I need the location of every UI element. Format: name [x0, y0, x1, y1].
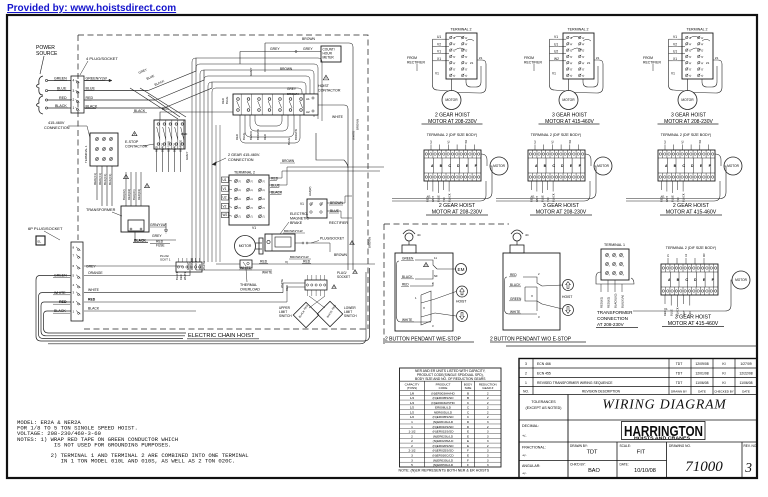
- svg-text:MOTOR AT 208-230V: MOTOR AT 208-230V: [536, 210, 587, 216]
- svg-text:F: F: [467, 458, 469, 462]
- svg-text:2): 2): [570, 68, 573, 70]
- svg-text:Z1: Z1: [587, 61, 591, 65]
- svg-text:MOTOR: MOTOR: [562, 98, 575, 102]
- svg-text:MAGNETIC: MAGNETIC: [290, 217, 309, 221]
- svg-text:TERMINAL 2: TERMINAL 2: [567, 28, 588, 32]
- svg-text:WHITE: WHITE: [88, 288, 100, 292]
- svg-text:DRAWING NO.: DRAWING NO.: [669, 444, 691, 448]
- svg-text:BLACK: BLACK: [551, 193, 555, 202]
- svg-text:RECTIFIER: RECTIFIER: [329, 221, 348, 225]
- svg-text:BLACK: BLACK: [447, 193, 451, 202]
- svg-text:1: 1: [411, 425, 413, 429]
- svg-text:11: 11: [434, 256, 437, 260]
- svg-text:3: 3: [487, 430, 489, 434]
- svg-text:KI: KI: [722, 362, 725, 366]
- svg-text:E: E: [467, 430, 469, 434]
- svg-text:1/27/09: 1/27/09: [740, 362, 751, 366]
- svg-text:3 GEAR HOIST: 3 GEAR HOIST: [552, 113, 587, 119]
- svg-text:WHITE: WHITE: [352, 131, 356, 140]
- svg-text:BLACK: BLACK: [55, 104, 67, 108]
- svg-text:BLK(X2): BLK(X2): [122, 189, 126, 200]
- svg-text:(N)ER010L/LD: (N)ER010L/LD: [433, 420, 454, 424]
- svg-text:2): 2): [689, 68, 692, 70]
- svg-text:BROWN: BROWN: [282, 159, 295, 163]
- svg-text:DECIMAL:: DECIMAL:: [522, 424, 539, 428]
- svg-text:GREY: GREY: [185, 151, 189, 160]
- svg-text:HAZ(W): HAZ(W): [308, 187, 312, 196]
- svg-text:WHITE: WHITE: [54, 291, 66, 295]
- svg-text:TERMINAL 2 (DIF SIZE BODY): TERMINAL 2 (DIF SIZE BODY): [666, 246, 716, 250]
- svg-text:V1: V1: [252, 226, 256, 230]
- svg-text:2): 2): [465, 74, 468, 76]
- svg-text:3: 3: [525, 362, 527, 366]
- svg-text:3 GEAR HOIST: 3 GEAR HOIST: [675, 315, 712, 321]
- svg-text:2): 2): [582, 62, 585, 64]
- svg-text:(N)ER050L/LD: (N)ER050L/LD: [433, 463, 454, 467]
- svg-text:F: F: [467, 449, 469, 453]
- svg-text:KI: KI: [722, 381, 725, 385]
- svg-text:2): 2): [465, 49, 468, 51]
- svg-text:GREY: GREY: [303, 47, 313, 51]
- svg-text:GREEN: GREEN: [402, 257, 414, 261]
- svg-text:2): 2): [701, 56, 704, 58]
- svg-text:CONNECTION: CONNECTION: [597, 316, 628, 321]
- svg-text:X1: X1: [437, 57, 441, 61]
- svg-text:2): 2): [453, 43, 456, 45]
- svg-text:(N)ER030L/LD: (N)ER030L/LD: [433, 458, 454, 462]
- svg-text:2): 2): [251, 198, 254, 200]
- svg-text:3: 3: [73, 89, 75, 93]
- svg-text:SWITCH: SWITCH: [279, 314, 292, 318]
- svg-text:3: 3: [487, 453, 489, 457]
- svg-text:RED: RED: [402, 283, 409, 287]
- svg-text:2): 2): [582, 43, 585, 45]
- svg-text:RED(X1): RED(X1): [98, 173, 102, 185]
- svg-text:2: 2: [487, 396, 489, 400]
- svg-text:4 PLUG/SOCKET: 4 PLUG/SOCKET: [86, 56, 118, 61]
- svg-text:TERMINAL 1: TERMINAL 1: [84, 145, 88, 163]
- svg-text:V1: V1: [661, 195, 665, 199]
- svg-text:X1: X1: [673, 57, 677, 61]
- svg-text:Z1: Z1: [715, 56, 719, 60]
- svg-text:2): 2): [453, 56, 456, 58]
- svg-text:OVERLOAD: OVERLOAD: [240, 288, 260, 292]
- svg-text:ORANGE: ORANGE: [88, 271, 103, 275]
- svg-text:GREY: GREY: [249, 67, 253, 76]
- svg-text:NER005L/LD: NER005L/LD: [434, 410, 453, 414]
- svg-text:BLUE: BLUE: [271, 184, 281, 188]
- svg-text:5: 5: [411, 463, 413, 467]
- svg-text:(N)ER005S/SD: (N)ER005S/SD: [433, 415, 455, 419]
- svg-text:V1: V1: [552, 72, 556, 76]
- svg-text:2): 2): [582, 68, 585, 70]
- svg-text:WHITE: WHITE: [202, 261, 206, 270]
- svg-text:GREY: GREY: [152, 234, 162, 238]
- svg-text:2): 2): [251, 180, 254, 182]
- svg-text:GREY: GREY: [86, 265, 96, 269]
- svg-text:FUSE: FUSE: [156, 244, 165, 248]
- svg-text:SCALE:: SCALE:: [620, 444, 631, 448]
- svg-text:2: 2: [411, 439, 413, 443]
- svg-text:TDT: TDT: [676, 381, 683, 385]
- svg-text:BROWN: BROWN: [287, 92, 299, 96]
- svg-text:RED(X1): RED(X1): [93, 173, 97, 185]
- svg-text:2): 2): [689, 43, 692, 45]
- svg-text:GEAR #: GEAR #: [482, 386, 493, 390]
- svg-text:BLACK: BLACK: [88, 307, 100, 311]
- svg-text:2: 2: [73, 98, 75, 102]
- svg-text:SIZE: SIZE: [465, 386, 472, 390]
- svg-text:2): 2): [701, 62, 704, 64]
- svg-text:2 GEAR 415-460V.: 2 GEAR 415-460V.: [228, 153, 260, 157]
- svg-text:BLK(X1): BLK(X1): [108, 174, 112, 185]
- svg-text:10/10/08: 10/10/08: [634, 468, 656, 474]
- svg-text:THERMAL: THERMAL: [240, 283, 257, 287]
- svg-text:2): 2): [453, 62, 456, 64]
- svg-text:(N)ER015S/SD: (N)ER015S/SD: [433, 430, 455, 434]
- svg-text:MOTOR AT 415-460V: MOTOR AT 415-460V: [668, 321, 719, 327]
- svg-text:REV. NO.: REV. NO.: [744, 444, 758, 448]
- svg-text:FROM: FROM: [407, 56, 417, 60]
- svg-text:TERMINAL 2: TERMINAL 2: [450, 28, 471, 32]
- svg-text:BLACK: BLACK: [681, 193, 685, 202]
- svg-text:DATE: DATE: [742, 389, 750, 393]
- svg-text:2 GEAR HOIST: 2 GEAR HOIST: [439, 203, 476, 209]
- svg-text:BLACK: BLACK: [175, 271, 179, 280]
- svg-text:2): 2): [689, 74, 692, 76]
- svg-text:RED: RED: [86, 96, 94, 100]
- svg-text:2): 2): [453, 74, 456, 76]
- svg-text:ELECTRO-: ELECTRO-: [290, 212, 309, 216]
- svg-text:BROWN: BROWN: [302, 37, 316, 41]
- svg-text:2): 2): [239, 189, 242, 191]
- svg-text:3 GEAR HOIST: 3 GEAR HOIST: [671, 113, 706, 119]
- svg-text:2): 2): [239, 198, 242, 200]
- svg-text:3 GEAR HOIST: 3 GEAR HOIST: [543, 203, 580, 209]
- svg-text:TDT: TDT: [587, 450, 598, 456]
- svg-text:TERMINAL 2: TERMINAL 2: [686, 28, 707, 32]
- svg-text:2): 2): [239, 215, 242, 217]
- svg-text:1: 1: [525, 381, 527, 385]
- svg-text:BLACK: BLACK: [134, 109, 146, 113]
- svg-text:GREEN: GREEN: [54, 274, 67, 278]
- svg-text:REVISION DESCRIPTION: REVISION DESCRIPTION: [582, 389, 621, 393]
- svg-text:RED: RED: [510, 273, 517, 277]
- svg-text:2 BUTTON PENDANT W/E-STOP: 2 BUTTON PENDANT W/E-STOP: [385, 337, 462, 343]
- svg-text:2): 2): [689, 56, 692, 58]
- svg-text:2: 2: [411, 434, 413, 438]
- svg-text:ELECTRIC CHAIN HOIST: ELECTRIC CHAIN HOIST: [188, 333, 255, 339]
- svg-text:3: 3: [411, 453, 413, 457]
- svg-text:2): 2): [263, 180, 266, 182]
- svg-text:GREY: GREY: [287, 87, 297, 91]
- svg-text:RECTIFIER: RECTIFIER: [643, 61, 661, 65]
- svg-text:E: E: [467, 439, 469, 443]
- svg-text:2: 2: [487, 415, 489, 419]
- svg-text:A2: A2: [306, 110, 310, 114]
- svg-text:BROWN: BROWN: [368, 237, 372, 248]
- svg-text:2): 2): [465, 56, 468, 58]
- svg-text:HOIST: HOIST: [318, 84, 330, 88]
- svg-text:KI: KI: [722, 371, 725, 375]
- svg-text:X: X: [531, 294, 533, 298]
- svg-text:12/22/08: 12/22/08: [739, 371, 752, 375]
- svg-text:BROWN: BROWN: [280, 67, 293, 71]
- svg-text:3: 3: [487, 458, 489, 462]
- svg-text:BAO: BAO: [588, 468, 600, 474]
- svg-text:BLUE: BLUE: [242, 133, 246, 140]
- svg-text:2): 2): [701, 37, 704, 39]
- svg-text:NO.: NO.: [523, 389, 529, 393]
- svg-text:CODE: CODE: [439, 386, 448, 390]
- svg-text:FROM: FROM: [524, 56, 534, 60]
- svg-text:BLACK: BLACK: [510, 283, 521, 287]
- svg-text:BLUE: BLUE: [86, 87, 96, 91]
- svg-text:1: 1: [73, 106, 75, 110]
- svg-text:TERMINAL 2 (DIF SIZE BODY): TERMINAL 2 (DIF SIZE BODY): [531, 133, 581, 137]
- svg-text:MOTOR: MOTOR: [681, 98, 694, 102]
- svg-text:2): 2): [689, 62, 692, 64]
- svg-text:2): 2): [251, 215, 254, 217]
- svg-text:V2: V2: [673, 42, 677, 46]
- svg-text:DATE:: DATE:: [620, 463, 629, 467]
- svg-text:AT 208-230V: AT 208-230V: [597, 322, 625, 327]
- svg-text:DRAWN BY:: DRAWN BY:: [570, 444, 588, 448]
- svg-text:RED: RED: [263, 134, 267, 140]
- svg-text:ECN 455: ECN 455: [537, 371, 551, 375]
- svg-text:V1: V1: [671, 72, 675, 76]
- svg-text:E: E: [467, 444, 469, 448]
- svg-text:U1: U1: [437, 35, 441, 39]
- svg-text:B: B: [467, 396, 469, 400]
- svg-text:BODY SIZE AND NO. OF REDUCTION: BODY SIZE AND NO. OF REDUCTION GEARS: [415, 377, 486, 381]
- svg-text:BROWN: BROWN: [334, 253, 348, 257]
- svg-text:2): 2): [570, 43, 573, 45]
- svg-text:Z1: Z1: [479, 56, 483, 60]
- svg-text:RED: RED: [88, 298, 96, 302]
- svg-text:11/06/08: 11/06/08: [740, 381, 753, 385]
- svg-text:BLACK: BLACK: [54, 309, 66, 313]
- svg-text:V2: V2: [223, 204, 227, 208]
- svg-text:2): 2): [263, 207, 266, 209]
- svg-text:1/8: 1/8: [410, 391, 415, 395]
- svg-text:(TONS): (TONS): [407, 386, 417, 390]
- svg-text:HOISTS AND CRANES: HOISTS AND CRANES: [634, 435, 690, 440]
- svg-text:BRAKE: BRAKE: [290, 221, 303, 225]
- svg-text:Provided by: www.hoistsdirect.: Provided by: www.hoistsdirect.com: [7, 3, 176, 14]
- svg-text:TRANSFORMER: TRANSFORMER: [86, 208, 116, 212]
- svg-text:HOIST: HOIST: [562, 295, 572, 299]
- svg-text:1: 1: [411, 420, 413, 424]
- svg-text:BROWN: BROWN: [356, 119, 360, 130]
- svg-text:ECN 466: ECN 466: [537, 362, 551, 366]
- svg-text:12/01/08: 12/01/08: [695, 371, 708, 375]
- svg-text:CONTACTOR: CONTACTOR: [125, 145, 148, 149]
- svg-text:(N)ER020S/LD: (N)ER020S/LD: [433, 439, 454, 443]
- svg-text:RED(X1): RED(X1): [600, 297, 604, 308]
- svg-text:RECTIFIER: RECTIFIER: [407, 61, 425, 65]
- svg-text:FRACTIONAL:: FRACTIONAL:: [522, 446, 546, 450]
- svg-text:GREEN: GREEN: [54, 77, 67, 81]
- svg-text:TERMINAL 2 (DIF SIZE BODY): TERMINAL 2 (DIF SIZE BODY): [427, 133, 477, 137]
- svg-text:V1: V1: [673, 35, 677, 39]
- svg-text:RECTIFIER: RECTIFIER: [524, 61, 542, 65]
- svg-text:FROM: FROM: [643, 56, 653, 60]
- svg-text:V1: V1: [437, 50, 441, 54]
- svg-text:3: 3: [744, 460, 752, 475]
- svg-text:ER008L/LD: ER008L/LD: [435, 406, 452, 410]
- svg-text:TOLERANCES: TOLERANCES: [531, 400, 556, 404]
- svg-text:MOTOR: MOTOR: [239, 244, 252, 248]
- svg-text:RED(X2): RED(X2): [127, 189, 131, 200]
- svg-text:415-460V: 415-460V: [48, 121, 65, 125]
- svg-text:3: 3: [487, 434, 489, 438]
- svg-text:2: 2: [487, 401, 489, 405]
- svg-text:1/4: 1/4: [410, 396, 415, 400]
- svg-text:3: 3: [411, 458, 413, 462]
- svg-text:2): 2): [239, 207, 242, 209]
- svg-text:SOURCE: SOURCE: [36, 51, 58, 57]
- svg-text:V1: V1: [664, 307, 668, 311]
- svg-text:METER: METER: [323, 56, 335, 60]
- svg-text:U2: U2: [223, 196, 227, 200]
- svg-text:3: 3: [487, 420, 489, 424]
- svg-text:GRN/YLW: GRN/YLW: [150, 223, 166, 227]
- svg-text:RED: RED: [271, 177, 279, 181]
- svg-text:1/2: 1/2: [410, 406, 415, 410]
- svg-text:E-STOP: E-STOP: [125, 140, 139, 144]
- svg-text:RED: RED: [179, 274, 183, 280]
- svg-text:MOTOR: MOTOR: [735, 278, 748, 282]
- svg-text:IN 1 TON MODEL 010L AND 010S,: IN 1 TON MODEL 010L AND 010S, AS WELL AS…: [17, 457, 235, 464]
- svg-text:BLACK: BLACK: [249, 131, 253, 140]
- svg-text:CHECKED BY: CHECKED BY: [714, 389, 734, 393]
- svg-text:E: E: [467, 453, 469, 457]
- svg-text:TERMINAL 1: TERMINAL 1: [604, 243, 625, 247]
- svg-text:RED: RED: [162, 107, 169, 111]
- svg-text:2: 2: [487, 444, 489, 448]
- svg-text:RED: RED: [260, 260, 268, 264]
- svg-text:2): 2): [453, 68, 456, 70]
- svg-text:(N)ER005S/SD: (N)ER005S/SD: [433, 396, 455, 400]
- svg-text:EM: EM: [458, 267, 465, 272]
- svg-text:2): 2): [582, 37, 585, 39]
- svg-text:12/09/08: 12/09/08: [695, 362, 708, 366]
- svg-text:DATE: DATE: [698, 389, 706, 393]
- svg-text:V1: V1: [300, 202, 304, 206]
- svg-text:(N)ER010S/SD: (N)ER010S/SD: [433, 425, 455, 429]
- svg-text:(N)ER003AH/HD: (N)ER003AH/HD: [431, 391, 455, 395]
- svg-text:X): X): [285, 260, 288, 264]
- svg-text:GREEN: GREEN: [510, 297, 522, 301]
- svg-text:U1: U1: [223, 178, 227, 182]
- svg-text:2): 2): [263, 189, 266, 191]
- svg-text:(EXCEPT AS NOTED): (EXCEPT AS NOTED): [526, 406, 562, 410]
- svg-text:2): 2): [465, 62, 468, 64]
- svg-text:SCKT 1: SCKT 1: [160, 258, 171, 262]
- svg-text:Z1: Z1: [470, 61, 474, 65]
- svg-text:11/06/08: 11/06/08: [696, 381, 709, 385]
- svg-text:U1: U1: [673, 50, 677, 54]
- svg-text:2): 2): [465, 37, 468, 39]
- svg-text:2): 2): [239, 180, 242, 182]
- svg-text:Z1: Z1: [596, 56, 600, 60]
- svg-text:BLUE: BLUE: [57, 87, 67, 91]
- svg-text:IS NOT USED FOR GROUNDING PURP: IS NOT USED FOR GROUNDING PURPOSES.: [17, 441, 171, 448]
- svg-text:(N)ER003AH/HD: (N)ER003AH/HD: [431, 401, 455, 405]
- svg-text:CONNECTION: CONNECTION: [44, 126, 70, 130]
- svg-text:BLK(X1/V): BLK(X1/V): [621, 295, 625, 308]
- svg-text:RED: RED: [181, 132, 188, 136]
- svg-text:V1: V1: [554, 35, 558, 39]
- svg-text:W2: W2: [554, 57, 559, 61]
- svg-text:+/-: +/-: [522, 434, 527, 438]
- svg-text:SWITCH: SWITCH: [344, 314, 357, 318]
- svg-text:2: 2: [487, 406, 489, 410]
- svg-text:2: 2: [411, 444, 413, 448]
- svg-text:2): 2): [582, 49, 585, 51]
- svg-text:U1: U1: [554, 42, 558, 46]
- svg-text:DRAWN BY: DRAWN BY: [671, 389, 687, 393]
- svg-text:E: E: [467, 434, 469, 438]
- svg-text:WIRING DIAGRAM: WIRING DIAGRAM: [602, 397, 727, 412]
- svg-text:HOIST: HOIST: [456, 300, 466, 304]
- svg-text:1/2: 1/2: [410, 410, 415, 414]
- svg-text:BLACK: BLACK: [271, 191, 283, 195]
- svg-text:MOTOR: MOTOR: [727, 164, 740, 168]
- svg-text:WHITE: WHITE: [240, 266, 252, 270]
- svg-text:BLK(X1): BLK(X1): [103, 174, 107, 185]
- svg-text:2-1/2: 2-1/2: [408, 449, 415, 453]
- svg-text:BROWN/YLW: BROWN/YLW: [284, 229, 303, 233]
- svg-text:WHITE: WHITE: [262, 271, 272, 275]
- svg-text:X: X: [423, 306, 425, 310]
- svg-text:2): 2): [251, 189, 254, 191]
- svg-text:TDT: TDT: [676, 362, 683, 366]
- svg-text:4: 4: [73, 79, 75, 83]
- svg-text:SOCKET: SOCKET: [337, 275, 350, 279]
- svg-text:NF: NF: [434, 274, 438, 278]
- svg-text:V1: V1: [223, 187, 227, 191]
- svg-text:MOTOR: MOTOR: [445, 98, 458, 102]
- svg-text:TERMINAL 2 (DIF SIZE BODY): TERMINAL 2 (DIF SIZE BODY): [661, 133, 711, 137]
- svg-text:+/-: +/-: [522, 472, 527, 476]
- svg-text:ANGULAR:: ANGULAR:: [522, 464, 540, 468]
- svg-text:2: 2: [487, 425, 489, 429]
- svg-text:U2: U2: [554, 50, 558, 54]
- svg-text:TDT: TDT: [676, 371, 683, 375]
- svg-text:2): 2): [701, 43, 704, 45]
- svg-text:2: 2: [487, 410, 489, 414]
- svg-text:WHITE: WHITE: [510, 310, 520, 314]
- svg-text:BLACK(X2): BLACK(X2): [614, 293, 618, 308]
- svg-text:WHITE: WHITE: [280, 279, 284, 288]
- svg-text:B: B: [467, 391, 469, 395]
- svg-text:2 BUTTON PENDANT W/O E-STOP: 2 BUTTON PENDANT W/O E-STOP: [490, 337, 572, 343]
- svg-text:REVISED TRANSFORMER WIRING SEQ: REVISED TRANSFORMER WIRING SEQUENCE: [537, 381, 613, 385]
- svg-text:TRANSFORMER: TRANSFORMER: [597, 310, 633, 315]
- svg-text:PLUG/SOCKET: PLUG/SOCKET: [320, 237, 344, 241]
- svg-text:V1: V1: [435, 72, 439, 76]
- svg-text:2: 2: [525, 371, 527, 375]
- svg-text:WHITE: WHITE: [402, 318, 412, 322]
- svg-text:2): 2): [582, 74, 585, 76]
- svg-text:WHITE: WHITE: [183, 271, 187, 280]
- svg-text:RED: RED: [303, 260, 311, 264]
- svg-text:W2: W2: [223, 213, 228, 217]
- svg-text:1/4: 1/4: [410, 401, 415, 405]
- svg-text:(N)ER020S/SD: (N)ER020S/SD: [433, 444, 455, 448]
